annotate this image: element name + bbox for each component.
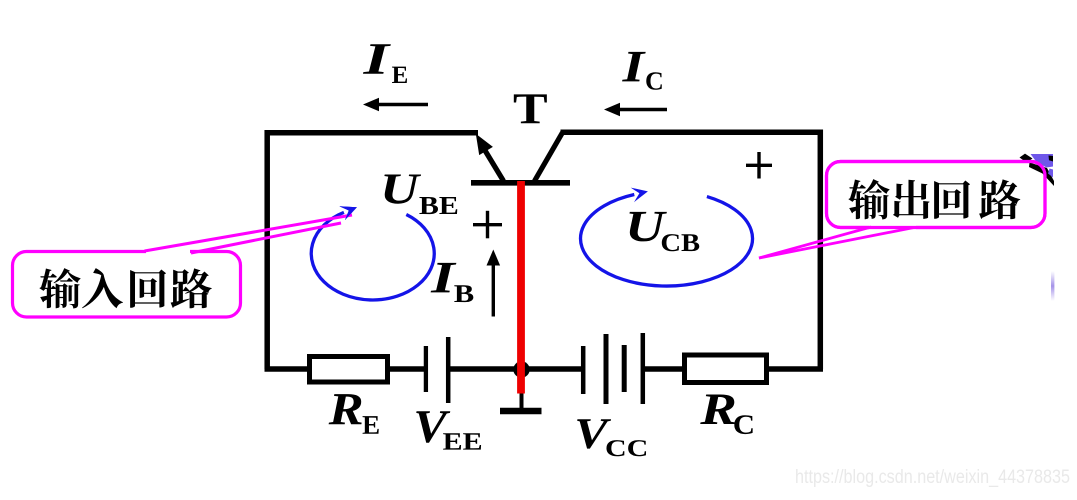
current IB arrow bbox=[492, 263, 495, 317]
plus sign (collector side) bbox=[746, 152, 772, 179]
label IB bbox=[431, 263, 457, 292]
label UBE bbox=[384, 174, 421, 203]
label IC bbox=[622, 52, 646, 81]
label UCB bbox=[629, 212, 666, 242]
battery VCC plate 2 (long) bbox=[604, 334, 609, 404]
label RC bbox=[700, 395, 735, 424]
wire bottom: VCC to RC bbox=[642, 366, 685, 372]
svg-text:https://blog.csdn.net/weixin_4: https://blog.csdn.net/weixin_44378835 bbox=[795, 467, 1070, 488]
callout box left (input loop) bbox=[13, 252, 241, 318]
transistor T emitter arrowhead bbox=[476, 134, 493, 155]
label T bbox=[514, 94, 547, 123]
wire bottom: VEE to VCC through ground node bbox=[448, 366, 584, 372]
label VEE bbox=[416, 411, 450, 442]
wire top-left with left vertical bbox=[267, 133, 478, 369]
ground bar bbox=[500, 408, 542, 415]
current IC arrow bbox=[615, 108, 667, 111]
resistor RC bbox=[685, 355, 767, 383]
wire bottom: RC to right corner bbox=[766, 366, 823, 372]
junction node dot bbox=[513, 361, 529, 377]
ground stem bbox=[520, 390, 524, 409]
transistor T emitter lead bbox=[482, 146, 504, 182]
loop arrow UCB (blue) bbox=[581, 195, 753, 287]
battery VEE short plate bbox=[424, 346, 428, 392]
battery VEE long plate bbox=[446, 337, 451, 403]
callout pointer left bbox=[146, 248, 190, 255]
battery VCC plate 1 (short) bbox=[581, 346, 586, 394]
wire top-right with right vertical bbox=[561, 132, 821, 369]
base wire (red) bbox=[517, 181, 525, 394]
wire bottom: left corner to RE bbox=[265, 366, 311, 372]
callout box right (output loop) bbox=[827, 162, 1046, 228]
label VCC bbox=[577, 419, 611, 448]
transistor T collector lead bbox=[535, 133, 563, 182]
callout pointer right bbox=[869, 224, 916, 231]
battery VCC plate 4 (long) bbox=[641, 333, 646, 404]
resistor RE bbox=[310, 357, 388, 383]
label RE bbox=[329, 394, 362, 424]
callout text 输出回路 bbox=[848, 179, 889, 219]
current IE arrow bbox=[374, 103, 428, 106]
loop arrow UBE (blue) bbox=[311, 212, 434, 300]
callout text 输入回路 bbox=[39, 268, 80, 308]
wire bottom: RE to VEE bbox=[388, 366, 426, 372]
loop arrow UBE arrowhead restroke bbox=[339, 206, 357, 220]
cursor artifact (purple arrow) bbox=[1020, 154, 1055, 186]
callout box right border restroke bbox=[827, 162, 1046, 228]
plus sign (emitter side) bbox=[473, 211, 502, 239]
transistor T base bar bbox=[471, 180, 570, 186]
battery VCC plate 3 (short) bbox=[622, 345, 627, 392]
label IE bbox=[363, 44, 391, 73]
